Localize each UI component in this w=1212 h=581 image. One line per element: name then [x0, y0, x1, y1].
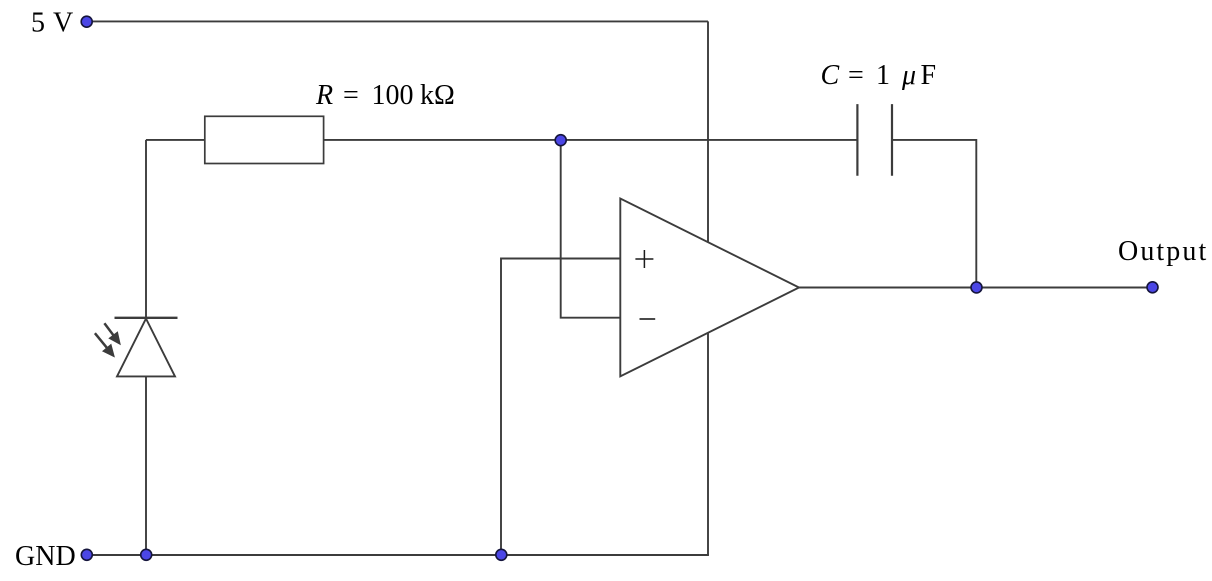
- op-amp U1 body: [620, 199, 799, 377]
- wire output: [799, 287, 1153, 289]
- op-amp minus input mark: [640, 318, 656, 320]
- photodiode light arrow 2: [95, 333, 114, 356]
- svg-text:R=100kΩ: R=100kΩ: [315, 80, 455, 111]
- node GND terminal: [81, 549, 92, 560]
- wire 5V rail: [87, 20, 708, 22]
- svg-text:C=1μF: C=1μF: [821, 60, 937, 91]
- node junction photodiode/GND rail: [141, 549, 152, 560]
- wire photodiode bottom (anode to GND): [145, 376, 147, 555]
- node junction resistor/cap/inverting: [555, 135, 566, 146]
- photodiode D1 cathode bar: [115, 317, 178, 319]
- wire resistor right to capacitor: [324, 139, 858, 141]
- svg-text:Output: Output: [1118, 236, 1208, 267]
- photodiode D1 triangle: [117, 319, 175, 377]
- node Output terminal: [1147, 282, 1158, 293]
- resistor R body: [205, 116, 324, 163]
- wire non-inverting input from GND branch: [501, 259, 620, 556]
- svg-text:GND: GND: [15, 541, 76, 572]
- node junction non-inverting/GND rail: [496, 549, 507, 560]
- op-amp plus input mark: [635, 250, 653, 268]
- wire inverting input from node: [561, 140, 621, 318]
- wire V+ / V- supply vertical at x=708: [707, 21, 709, 555]
- node 5V terminal: [81, 16, 92, 27]
- wire capacitor right and down to output: [892, 140, 976, 288]
- capacitor C plates: [857, 104, 892, 176]
- node junction output/capacitor: [971, 282, 982, 293]
- photodiode light arrow 1: [104, 323, 120, 344]
- wire GND rail: [87, 554, 709, 556]
- wire photodiode top (node to cathode): [145, 140, 147, 318]
- wire resistor left: [146, 139, 205, 141]
- svg-text:5V: 5V: [31, 7, 73, 38]
